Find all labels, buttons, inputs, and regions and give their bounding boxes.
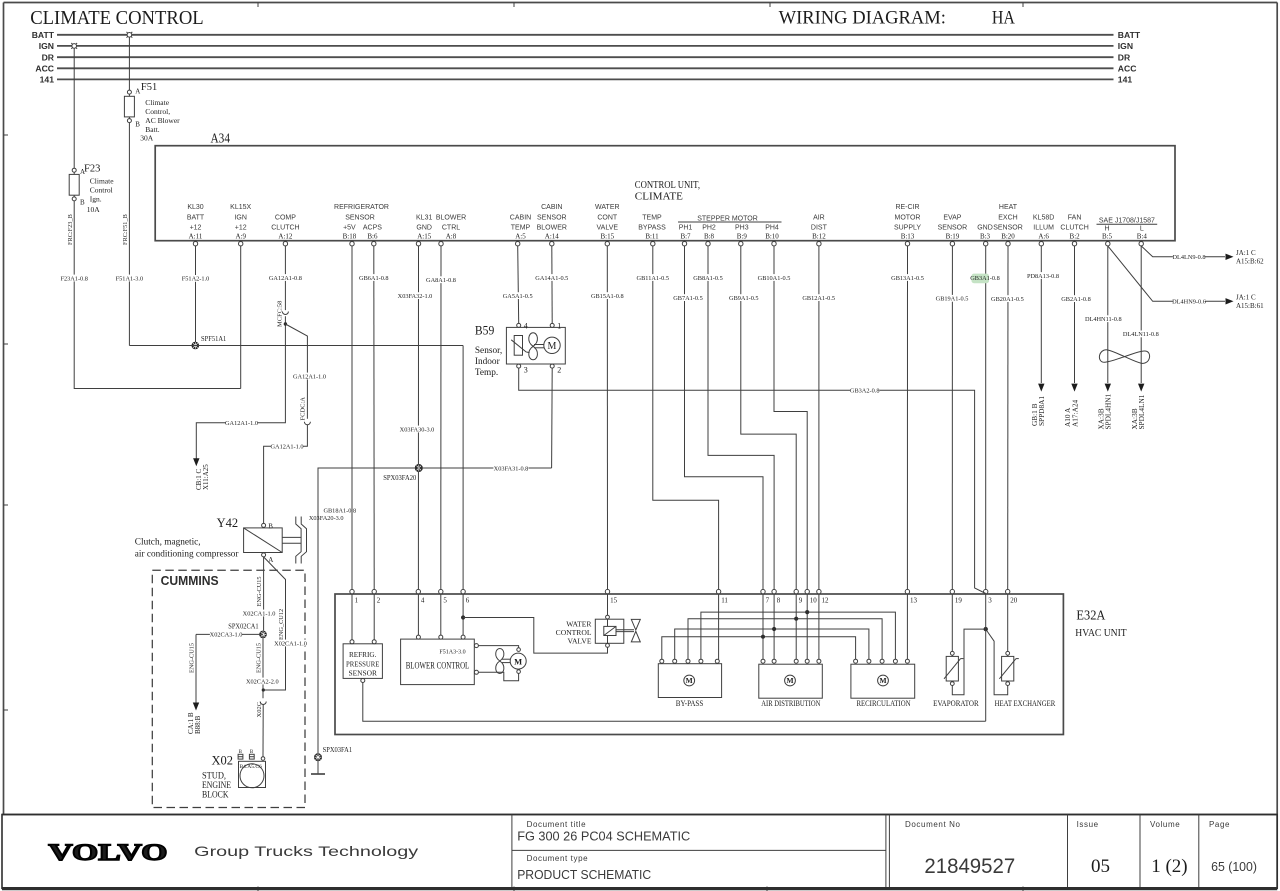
svg-text:A:15: A:15	[417, 233, 432, 241]
svg-text:GND: GND	[416, 225, 432, 232]
wire pin 3 down to ground return line	[985, 594, 987, 721]
svg-text:+12: +12	[190, 225, 202, 232]
svg-text:B:8: B:8	[704, 233, 715, 241]
E32A pin 20	[1006, 589, 1018, 604]
svg-text:BLOWER CONTROL: BLOWER CONTROL	[406, 660, 470, 670]
E32A pin 5	[439, 589, 448, 604]
svg-text:Control,: Control,	[145, 107, 170, 116]
title block frame	[2, 815, 1277, 889]
wire GB12A1-0.5 B:12 to E32A pin 12	[802, 246, 835, 590]
wire F51A3-3.0 from SPF51A1 to E32A pin 6	[129, 346, 463, 590]
svg-text:GB3A2-0.8: GB3A2-0.8	[850, 387, 880, 394]
svg-text:X03FA30-3.0: X03FA30-3.0	[400, 426, 435, 433]
svg-text:A:8: A:8	[446, 233, 457, 241]
svg-text:19: 19	[955, 596, 963, 604]
svg-text:SUPPLY: SUPPLY	[894, 225, 921, 232]
svg-text:F51A2-1.0: F51A2-1.0	[182, 276, 209, 283]
svg-text:PD8A13-0.8: PD8A13-0.8	[1027, 273, 1059, 280]
A34 pin A:6	[1033, 214, 1054, 246]
svg-text:Group Trucks Technology: Group Trucks Technology	[194, 843, 418, 859]
svg-text:L: L	[1140, 226, 1144, 233]
svg-text:BLOCK: BLOCK	[202, 791, 229, 801]
svg-text:10: 10	[810, 596, 818, 604]
svg-text:CABIN: CABIN	[510, 214, 531, 221]
A34 pin B:10	[765, 225, 779, 246]
wire DL4HN9-0.6 from B:5 to off-page arrow JA:1 C A15:B:61	[1108, 246, 1264, 310]
wire GB9A1-0.5 B:9 to E32A pin 9	[729, 246, 796, 590]
svg-text:FCDC:A: FCDC:A	[300, 397, 307, 421]
E32A pin 6	[461, 589, 470, 604]
A34 pin A:12	[271, 214, 299, 246]
svg-text:B: B	[268, 523, 273, 531]
svg-text:RE-CIR: RE-CIR	[895, 204, 919, 211]
A34 pin B:18	[343, 225, 357, 246]
svg-text:ACC: ACC	[35, 63, 54, 73]
fuse F51 Climate Control AC Blower Batt 30A	[124, 37, 180, 142]
wire GB19A1-0.5 B:19 to E32A pin 19	[936, 246, 969, 590]
svg-text:RECIRCULATION: RECIRCULATION	[856, 699, 910, 708]
svg-text:SENSOR: SENSOR	[993, 225, 1023, 232]
svg-text:B:5: B:5	[1102, 233, 1113, 241]
A34 pin B:11	[638, 214, 666, 246]
svg-text:13: 13	[910, 596, 918, 604]
svg-text:3: 3	[988, 596, 992, 604]
connector break MCFC:58	[277, 301, 289, 327]
svg-text:SPF51A1: SPF51A1	[201, 334, 227, 343]
wire DL4LN11-0.8 from B:4 to arrow XA:3B SPDL4LN1	[1123, 246, 1159, 430]
svg-text:F23: F23	[84, 164, 100, 175]
svg-text:GB7A1-0.5: GB7A1-0.5	[673, 295, 703, 302]
junction on pin 6 wire feeding water valve	[461, 615, 465, 619]
wire F51A2-1.0 A:11 to splice SPF51A1	[181, 246, 210, 346]
connector break FCDC:A	[300, 397, 311, 425]
svg-text:GB6A1-0.8: GB6A1-0.8	[359, 275, 389, 282]
svg-text:A: A	[80, 168, 85, 176]
svg-text:X02CA1-1.0: X02CA1-1.0	[243, 610, 276, 617]
svg-text:ENG_CU12: ENG_CU12	[278, 609, 285, 640]
svg-text:GA5A1-0.5: GA5A1-0.5	[503, 293, 533, 300]
E32A pin 19	[950, 589, 962, 604]
svg-text:GB12A1-0.5: GB12A1-0.5	[802, 295, 835, 302]
component BLOWER CONTROL	[401, 594, 479, 685]
svg-text:air conditioning compressor: air conditioning compressor	[135, 549, 240, 559]
wire GB13A1-0.5 B:13 to E32A pin 13	[891, 246, 924, 590]
CUMMINS engine boundary (dashed)	[152, 570, 305, 807]
wire GA12A1-0.8 from A:12 to connector MCFC:58	[269, 246, 302, 310]
A34 pin B:15	[595, 204, 620, 246]
svg-text:PH3: PH3	[735, 225, 749, 232]
svg-text:Climate: Climate	[90, 176, 114, 185]
svg-text:CLUTCH: CLUTCH	[271, 225, 299, 232]
svg-text:A15:B:61: A15:B:61	[1236, 302, 1264, 310]
A34 pin B:9	[735, 225, 749, 246]
svg-text:CONTROL UNIT,: CONTROL UNIT,	[635, 180, 700, 191]
svg-text:ENG-CU15: ENG-CU15	[256, 643, 263, 673]
stepper distribution bus D (pin 7)	[662, 635, 856, 660]
svg-text:KL31: KL31	[416, 214, 432, 221]
svg-text:141: 141	[40, 75, 55, 85]
svg-text:GB13A1-0.5: GB13A1-0.5	[891, 275, 924, 282]
wire from B59 pin 2 down to X03FA31 node	[551, 368, 554, 468]
E32A pin 8	[772, 589, 781, 604]
E32A pin 15	[605, 589, 617, 604]
svg-text:GA12A1-1.0: GA12A1-1.0	[270, 443, 303, 450]
svg-text:B:11: B:11	[645, 233, 659, 241]
E32A pin 2	[372, 589, 381, 604]
svg-text:4: 4	[524, 322, 528, 331]
svg-text:GB2A1-0.8: GB2A1-0.8	[1061, 296, 1091, 303]
svg-text:B88:B: B88:B	[194, 715, 202, 734]
wire GA12A1-1.0 to connector FCDC:A	[285, 324, 326, 419]
svg-text:STUD,: STUD,	[202, 772, 226, 782]
svg-text:A17:A24: A17:A24	[1071, 399, 1080, 427]
svg-text:KL58D: KL58D	[1033, 214, 1054, 221]
svg-text:Volume: Volume	[1150, 820, 1180, 829]
svg-text:DR: DR	[1118, 52, 1131, 62]
svg-text:DL4HN11-0.8: DL4HN11-0.8	[1085, 316, 1122, 323]
svg-text:Y42: Y42	[217, 516, 239, 530]
svg-text:GA8A1-0.8: GA8A1-0.8	[426, 277, 456, 284]
svg-text:A:6: A:6	[1038, 233, 1049, 241]
svg-text:DL4LN9-0.8: DL4LN9-0.8	[1172, 254, 1205, 261]
svg-text:DIST: DIST	[811, 225, 828, 232]
svg-text:X02CA2-2.0: X02CA2-2.0	[246, 678, 279, 685]
E32A pin 12	[817, 589, 829, 604]
svg-text:GA14A1-0.5: GA14A1-0.5	[535, 275, 568, 282]
svg-text:F23A1-0.8: F23A1-0.8	[60, 275, 87, 282]
svg-text:10A: 10A	[87, 205, 101, 214]
svg-text:7: 7	[766, 596, 770, 604]
svg-text:COMP: COMP	[275, 214, 296, 221]
svg-text:B:7: B:7	[680, 233, 691, 241]
twisted pair symbol on SAE J1708 pair	[1099, 350, 1149, 364]
svg-text:DR: DR	[42, 52, 55, 62]
svg-text:EXCH: EXCH	[998, 214, 1017, 221]
svg-text:IGN: IGN	[234, 214, 246, 221]
svg-text:A: A	[135, 88, 140, 96]
svg-text:F51: F51	[141, 82, 157, 93]
junction of ENG_CU12 with stud wire	[262, 688, 265, 691]
A34 pin A:5	[510, 214, 531, 246]
off-page arrow to CB:1 C / X11:A25	[193, 458, 210, 490]
svg-text:VALVE: VALVE	[567, 637, 591, 646]
junction at MCFC:58 branch	[284, 322, 287, 325]
svg-text:DL4LN11-0.8: DL4LN11-0.8	[1123, 331, 1159, 338]
svg-text:B:6: B:6	[367, 233, 378, 241]
bus tap junction IGN to F23	[71, 43, 77, 49]
title WIRING DIAGRAM: HA	[779, 9, 1016, 29]
svg-text:CLIMATE CONTROL: CLIMATE CONTROL	[30, 8, 204, 29]
wire GB15A1-0.8 B:15 to E32A pin 15	[591, 246, 624, 590]
svg-text:GB20A1-0.5: GB20A1-0.5	[991, 296, 1024, 303]
control unit A34 CONTROL UNIT, CLIMATE	[155, 131, 1175, 241]
svg-text:X03FA31-0.8: X03FA31-0.8	[494, 465, 529, 472]
svg-text:Climate: Climate	[145, 98, 169, 107]
svg-text:IGN: IGN	[1118, 41, 1133, 51]
wire GB18A1-0.8 B:18 to E32A pin 1	[351, 246, 353, 590]
svg-text:A:5: A:5	[515, 233, 526, 241]
svg-text:GND: GND	[977, 225, 993, 232]
svg-text:Temp.: Temp.	[475, 368, 498, 378]
svg-text:PH1: PH1	[679, 225, 693, 232]
wire X03FA32-1.0 / X03FA30-3.0 from A:15 to splice SPX03FA20 to E32A pin 4	[397, 246, 434, 590]
svg-text:Control: Control	[90, 185, 113, 194]
wire X02C to stud X02	[262, 705, 264, 757]
svg-text:X02CA1-1.0: X02CA1-1.0	[274, 640, 307, 647]
motor RECIRCULATION	[851, 659, 915, 708]
svg-text:2: 2	[557, 365, 561, 374]
wire from REFRIG PRESSURE SENSOR to pin 3 ground return	[363, 683, 986, 722]
A34 pin B:8	[702, 225, 716, 246]
svg-text:HA: HA	[992, 9, 1016, 29]
svg-text:Ign.: Ign.	[90, 194, 102, 203]
splice SPF51A1	[192, 334, 227, 349]
svg-text:X02C: X02C	[256, 702, 263, 718]
wire GA5A1-0.5 from A:5 to B59 pin 4	[503, 246, 533, 324]
svg-text:PRODUCT SCHEMATIC: PRODUCT SCHEMATIC	[517, 867, 651, 882]
svg-text:STEPPER MOTOR: STEPPER MOTOR	[697, 216, 758, 223]
svg-text:1: 1	[557, 322, 561, 331]
svg-text:AC Blower: AC Blower	[145, 116, 180, 125]
wire PD8A13-0.8 from A:6 to arrow GB:1 B SPPD8A1	[1027, 246, 1059, 426]
A34 pin A:9	[230, 204, 251, 246]
svg-text:B4.A5.C6: B4.A5.C6	[240, 764, 263, 770]
fuse F23 Climate Control Ign 10A	[69, 48, 114, 214]
E32A pin 13	[905, 589, 917, 604]
svg-text:05: 05	[1091, 856, 1110, 877]
svg-text:B:19: B:19	[946, 233, 960, 241]
svg-text:30A: 30A	[140, 134, 154, 143]
svg-text:MCFC:58: MCFC:58	[277, 301, 284, 327]
svg-text:65 (100): 65 (100)	[1211, 859, 1257, 874]
svg-text:WATER: WATER	[595, 204, 620, 211]
svg-text:B:3: B:3	[980, 233, 991, 241]
svg-text:3: 3	[524, 365, 528, 374]
svg-text:DL4HN9-0.6: DL4HN9-0.6	[1172, 299, 1206, 306]
svg-text:IGN: IGN	[39, 41, 54, 51]
junction below E32A pin 3	[984, 627, 988, 631]
A34 pin header REFRIGERATOR SENSOR	[334, 204, 389, 221]
wire F23/A:9 KL15X IGN with label F51A1-3.0	[115, 246, 241, 389]
stud X02 STUD ENGINE BLOCK	[202, 750, 266, 800]
motor AIR DISTRIBUTION	[759, 659, 823, 708]
svg-text:ILLUM: ILLUM	[1033, 225, 1054, 232]
svg-text:1 (2): 1 (2)	[1151, 856, 1187, 877]
svg-text:A:14: A:14	[545, 233, 560, 241]
wire GB10A1-0.5 B:10 to E32A pin 10	[758, 246, 808, 590]
svg-text:B59: B59	[475, 324, 494, 338]
svg-text:REFRIGERATOR: REFRIGERATOR	[334, 204, 389, 211]
svg-text:H: H	[1104, 226, 1109, 233]
E32A pin 10	[805, 589, 817, 604]
svg-text:GA12A1-1.0: GA12A1-1.0	[293, 373, 326, 380]
motor BY-PASS	[658, 659, 721, 708]
svg-text:A:12: A:12	[278, 233, 293, 241]
svg-text:CABIN: CABIN	[541, 204, 562, 211]
svg-text:X02: X02	[212, 754, 234, 768]
svg-text:X03FA20-3.0: X03FA20-3.0	[309, 515, 344, 522]
svg-text:141: 141	[1118, 75, 1133, 85]
A34 pin A:11	[187, 204, 205, 246]
A34 pin A:15	[416, 214, 432, 246]
svg-text:BYPASS: BYPASS	[638, 225, 666, 232]
stepper distribution bus C (pin 8)	[675, 627, 869, 659]
svg-text:CLUTCH: CLUTCH	[1060, 225, 1088, 232]
A34 pin header SAE J1708/J1587	[1097, 218, 1158, 225]
wire GB6A1-0.8 B:6 to E32A pin 2	[359, 246, 389, 590]
bus IGN	[39, 41, 1133, 51]
svg-text:B: B	[135, 121, 140, 129]
svg-text:SPDL4LN1: SPDL4LN1	[1137, 394, 1146, 429]
wire FRC:F23_B / F23A1-0.8 from fuse F23 to node with A:9 wire	[60, 201, 241, 389]
svg-text:X11:A25: X11:A25	[202, 464, 210, 490]
svg-text:M: M	[879, 676, 886, 685]
wire pin 11 to BY-PASS motor	[718, 594, 720, 659]
title block Volume 1 (2)	[1150, 820, 1188, 877]
svg-text:B:10: B:10	[765, 233, 779, 241]
wire branch from MCFC:58 to arrow CB:1 C X11:A25	[196, 316, 285, 458]
svg-text:PH4: PH4	[765, 225, 779, 232]
A34 pin B:20	[993, 204, 1023, 246]
wire ENG_CU12 parallel branch from Y42 pin A	[264, 557, 307, 690]
svg-text:CTRL: CTRL	[442, 225, 460, 232]
wire pin 13 down to RECIRCULATION motor	[906, 594, 908, 659]
svg-text:PH2: PH2	[702, 225, 716, 232]
svg-text:GA12A1-1.0: GA12A1-1.0	[225, 420, 258, 427]
svg-text:BY-PASS: BY-PASS	[676, 699, 704, 708]
svg-text:GA12A1-0.8: GA12A1-0.8	[269, 275, 302, 282]
svg-text:M: M	[548, 341, 557, 352]
title block Document title FG 300 26 PC04 SCHEMATIC	[517, 820, 690, 843]
svg-text:FRC:F51_B: FRC:F51_B	[122, 214, 129, 245]
svg-text:M: M	[514, 656, 522, 666]
svg-text:Issue: Issue	[1077, 820, 1099, 829]
title block Issue 05	[1077, 820, 1110, 877]
bus DR	[42, 52, 1131, 62]
svg-text:ACPS: ACPS	[363, 225, 382, 232]
wire DL4HN11-0.8 from B:5 to arrow XA:3B SPDL4HN1	[1085, 246, 1122, 430]
wire X03FA31-0.8 from SPX03FA20 to B59 pin 2	[419, 465, 552, 473]
svg-text:SENSOR: SENSOR	[345, 214, 375, 221]
svg-text:FG 300 26 PC04 SCHEMATIC: FG 300 26 PC04 SCHEMATIC	[517, 828, 690, 843]
thermistor EVAPORATOR	[933, 594, 979, 708]
wire heat exchanger to pin 3 junction	[986, 629, 1008, 695]
A34 pin B:12	[811, 214, 828, 246]
component REFRIG PRESSURE SENSOR	[343, 594, 382, 683]
bus ACC	[35, 63, 1136, 73]
A34 pin B:6	[363, 225, 382, 246]
svg-text:B:15: B:15	[600, 233, 614, 241]
E32A pin 9	[794, 589, 803, 604]
svg-text:KL30: KL30	[187, 204, 203, 211]
svg-text:12: 12	[822, 596, 830, 604]
svg-text:BLOWER: BLOWER	[436, 214, 466, 221]
HVAC unit E32A box	[335, 594, 1127, 735]
E32A pin 1	[350, 589, 359, 604]
svg-text:2: 2	[377, 596, 381, 604]
svg-text:X03FA32-1.0: X03FA32-1.0	[398, 293, 433, 300]
svg-text:X02CA3-1.0: X02CA3-1.0	[210, 632, 243, 639]
svg-text:Document type: Document type	[527, 854, 589, 863]
svg-text:GB8A1-0.5: GB8A1-0.5	[693, 275, 723, 282]
svg-text:TEMP: TEMP	[511, 225, 531, 232]
wire GA8A1-0.8 A:8 to E32A pin 5	[426, 246, 456, 590]
svg-text:5: 5	[443, 596, 447, 604]
wire evaporator to pin 3 junction	[952, 629, 983, 695]
svg-text:SENSOR: SENSOR	[938, 225, 968, 232]
svg-text:FRC:F23_B: FRC:F23_B	[67, 214, 74, 245]
wire X02CA2-2.0 from SPX02CA1 to stud X02	[246, 638, 279, 698]
wire X02CA3-1.0 from SPX02CA1 to arrow CA:1 B B88:B	[187, 631, 263, 734]
A34 pin B:4	[1137, 226, 1148, 246]
svg-text:B:2: B:2	[1070, 233, 1081, 241]
svg-text:MOTOR: MOTOR	[895, 214, 921, 221]
svg-text:11: 11	[721, 596, 728, 604]
svg-text:6: 6	[466, 596, 470, 604]
svg-text:B:4: B:4	[1137, 233, 1148, 241]
svg-text:SPPD8A1: SPPD8A1	[1037, 396, 1046, 426]
wire DL4LN9-0.8 from B:4 to off-page arrow JA:1 C A15:B:62	[1141, 246, 1264, 266]
svg-text:21849527: 21849527	[924, 855, 1015, 878]
title block Page 65 (100)	[1209, 820, 1257, 874]
svg-text:GB15A1-0.8: GB15A1-0.8	[591, 293, 624, 300]
E32A pin 11	[716, 589, 728, 604]
svg-text:20: 20	[1010, 596, 1018, 604]
wire GB8A1-0.5 B:8 to E32A pin 8	[693, 246, 774, 590]
svg-text:FAN: FAN	[1068, 214, 1082, 221]
wire GB3A1-0.8 B:3 to E32A pin 3 (highlighted label)	[970, 246, 1000, 590]
wires pins 7 8 9 10 12 down to AIR DISTRIBUTION motor	[763, 594, 819, 659]
svg-text:BLOWER: BLOWER	[537, 225, 567, 232]
bus 141	[40, 75, 1133, 85]
svg-text:+5V: +5V	[343, 225, 356, 232]
svg-text:KL15X: KL15X	[230, 204, 251, 211]
bus tap junction BATT to F51	[127, 32, 133, 38]
wire ENG-CU15 from Y42 pin A to splice SPX02CA1	[243, 557, 276, 631]
splice SPX02CA1	[228, 622, 267, 639]
svg-text:Batt.: Batt.	[145, 125, 159, 134]
splice SPX03FA1 with ground termination	[311, 745, 352, 774]
svg-text:SPDL4HN1: SPDL4HN1	[1104, 393, 1113, 429]
VOLVO logotype	[48, 841, 167, 866]
svg-text:BATT: BATT	[1118, 30, 1141, 40]
svg-text:SPX03FA1: SPX03FA1	[323, 745, 353, 754]
svg-text:BATT: BATT	[32, 30, 55, 40]
svg-text:15: 15	[610, 596, 618, 604]
blower motor with fan	[478, 646, 526, 681]
svg-text:B:13: B:13	[901, 233, 915, 241]
A34 pin B:13	[894, 204, 921, 246]
wire GB3A2-0.8 from B59 pin 3 to E32A pin 3	[519, 368, 986, 593]
svg-text:E32A: E32A	[1076, 608, 1105, 623]
svg-text:SPX02CA1: SPX02CA1	[228, 622, 259, 631]
title block Document No 21849527	[905, 820, 1015, 878]
component WATER CONTROL VALVE	[556, 594, 641, 648]
svg-text:M: M	[686, 676, 693, 685]
svg-text:CONT: CONT	[597, 214, 618, 221]
svg-text:WIRING DIAGRAM:: WIRING DIAGRAM:	[779, 9, 946, 29]
svg-text:SENSOR: SENSOR	[348, 669, 377, 678]
wire FRC:F51_B from fuse F51 down	[122, 123, 129, 346]
svg-text:F51A1-3.0: F51A1-3.0	[116, 275, 143, 282]
svg-text:Document No: Document No	[905, 820, 961, 829]
svg-text:ENG-CU15: ENG-CU15	[189, 643, 196, 673]
wire GB11A1-0.5 B:11 to E32A pin 11	[637, 246, 719, 590]
wire GA12A1-1.0 from FCDC:A to clutch Y42 pin B	[264, 425, 308, 524]
wire GB20A1-0.5 B:20 to E32A pin 20	[991, 246, 1024, 590]
A34 pin header STEPPER MOTOR	[678, 216, 782, 223]
svg-text:EVAPORATOR: EVAPORATOR	[933, 699, 979, 708]
